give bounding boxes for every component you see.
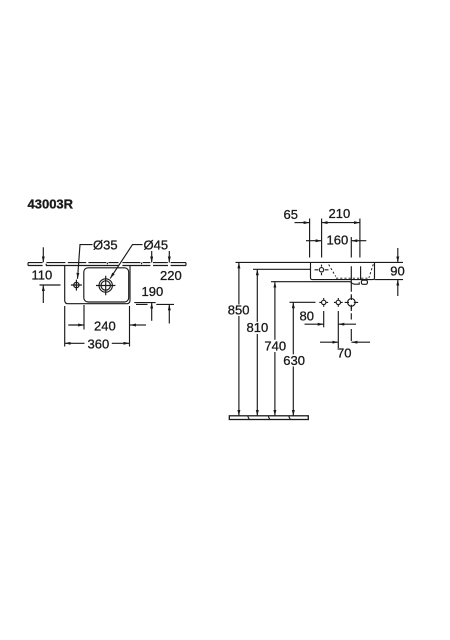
front view rim top line (850 reference) bbox=[236, 261, 404, 263]
washbasin inner bowl (plan view) bbox=[84, 268, 129, 302]
dimension 810 bbox=[247, 269, 269, 416]
svg-text:43003R: 43003R bbox=[28, 197, 74, 212]
dimension 190 (inner bowl depth from wall) bbox=[134, 251, 163, 321]
leader line for drain diameter Ø45 bbox=[110, 237, 168, 278]
dimension 110 (tap hole distance from wall) bbox=[32, 247, 61, 303]
svg-text:110: 110 bbox=[32, 267, 53, 282]
svg-text:90: 90 bbox=[390, 264, 404, 279]
basin bottom extension line to 90 dim bbox=[375, 279, 404, 281]
dimension 740 bbox=[264, 282, 286, 416]
washbasin body outline (front view) bbox=[311, 262, 375, 279]
svg-text:160: 160 bbox=[327, 233, 349, 248]
tap hole (front view) bbox=[315, 265, 329, 276]
floor line band bbox=[229, 416, 308, 420]
svg-text:65: 65 bbox=[284, 207, 298, 222]
extension line below fixing hole left bbox=[323, 311, 325, 327]
reference line 740 (basin bottom) bbox=[271, 281, 351, 283]
dimension 90 (basin height) bbox=[390, 248, 404, 296]
drain valve outline below basin (front view) bbox=[351, 280, 368, 284]
dimension 160 (tap hole to drain centre) bbox=[306, 233, 366, 248]
overflow channel line (front view) bbox=[360, 266, 362, 279]
fixing hole right (front view) bbox=[334, 298, 343, 307]
drain hole (plan view) bbox=[96, 276, 115, 295]
drain outlet hole (front view) bbox=[345, 296, 358, 309]
dimension 850 (rim height) bbox=[228, 262, 250, 416]
top dimension extension lines (front view) bbox=[310, 219, 360, 258]
svg-text:Ø45: Ø45 bbox=[144, 237, 169, 252]
inner bowl right slope (dashed, front view) bbox=[369, 264, 373, 278]
svg-text:850: 850 bbox=[228, 302, 250, 317]
svg-text:220: 220 bbox=[160, 268, 182, 283]
svg-text:240: 240 bbox=[94, 318, 116, 333]
svg-text:80: 80 bbox=[300, 309, 314, 324]
tap hole (plan view) bbox=[71, 280, 82, 291]
svg-text:70: 70 bbox=[337, 345, 351, 360]
dimension 630 bbox=[283, 302, 305, 416]
svg-text:810: 810 bbox=[247, 320, 269, 335]
dimension 360 (basin overall width) bbox=[65, 336, 130, 351]
dimension 70 (fixing hole to drain centre) bbox=[320, 342, 370, 360]
reference line 630 (fixing holes level) bbox=[290, 301, 316, 303]
dimension 80 (fixing hole spacing) bbox=[300, 309, 357, 325]
dimension 240 (bowl width) bbox=[68, 318, 146, 333]
extension lines below basin (plan view) bbox=[65, 305, 130, 347]
inner bowl left slope (dashed, front view) bbox=[329, 265, 336, 277]
dimension 220 (basin depth from wall) bbox=[136, 251, 182, 324]
dimension 65 (tap hole offset) bbox=[284, 207, 310, 222]
wall tile band (plan view) top line bbox=[28, 262, 186, 264]
drain centre line (front view) bbox=[350, 266, 352, 341]
wall tile band (plan view) bottom line bbox=[28, 263, 186, 266]
bowl bottom (dashed, front view) bbox=[336, 277, 368, 279]
svg-text:740: 740 bbox=[264, 339, 286, 354]
svg-text:190: 190 bbox=[142, 284, 164, 299]
reference line 810 (underside at wall) bbox=[253, 268, 311, 270]
svg-text:360: 360 bbox=[88, 336, 110, 351]
washbasin outer rim (plan view) bbox=[65, 266, 130, 304]
svg-text:210: 210 bbox=[329, 206, 351, 221]
extension line below fixing hole right bbox=[337, 311, 339, 348]
leader line for tap hole diameter Ø35 bbox=[78, 237, 118, 278]
fixing hole left (front view) bbox=[319, 298, 328, 307]
svg-text:630: 630 bbox=[283, 353, 305, 368]
dimension 210 bbox=[322, 206, 360, 222]
svg-text:Ø35: Ø35 bbox=[93, 237, 118, 252]
